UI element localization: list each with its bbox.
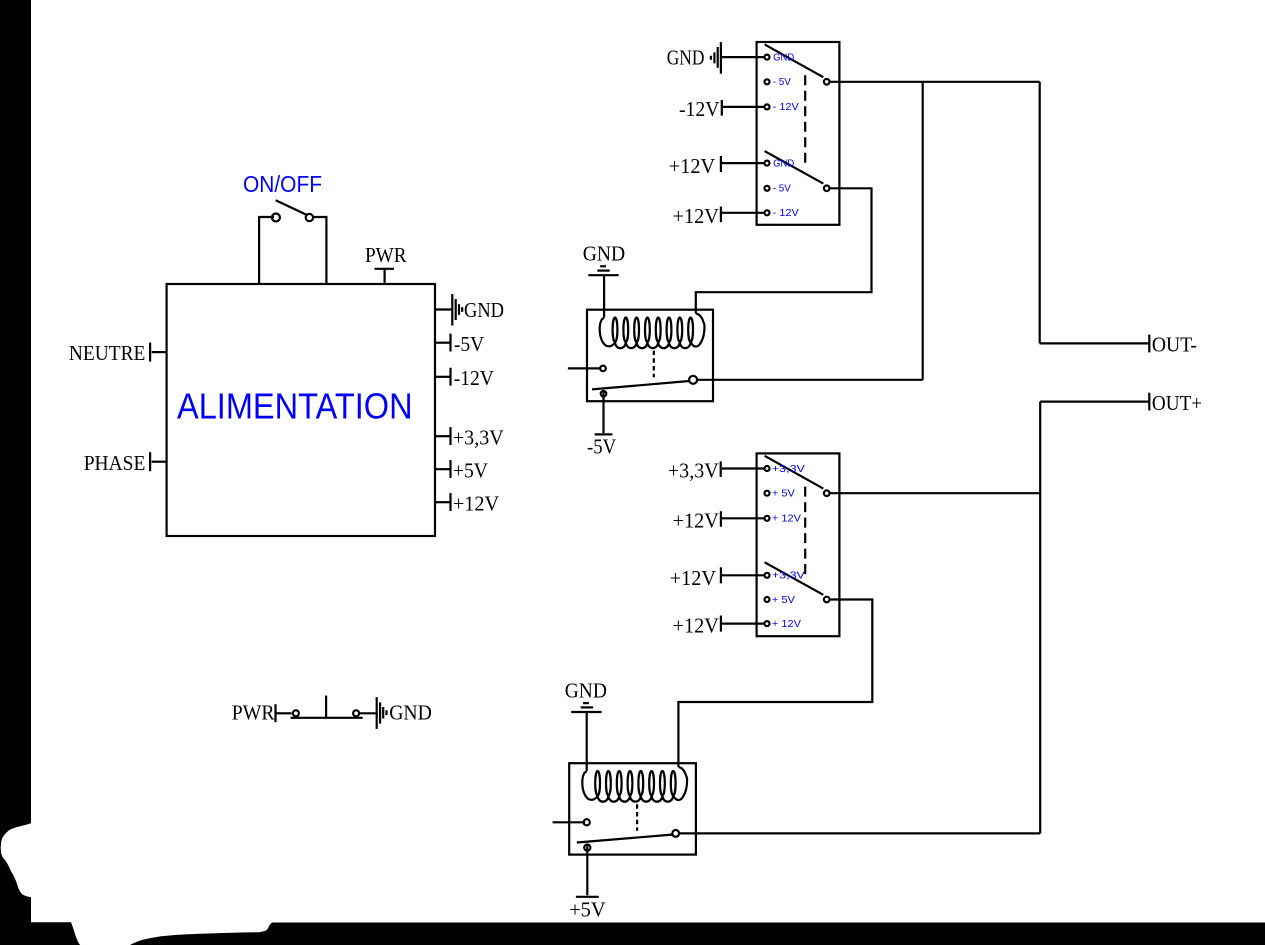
SW1 contact -12V pole2 xyxy=(765,210,770,215)
scan border left black bar xyxy=(0,0,31,945)
svg-text:+3,3V: +3,3V xyxy=(772,570,805,582)
scan border bottom black bar xyxy=(30,922,1265,945)
svg-text:+12V: +12V xyxy=(673,614,719,638)
wire SW1 pole1 output to OUT- corner xyxy=(830,81,1039,83)
ground symbol (horizontal bars) xyxy=(600,265,606,267)
SW2 contact +12V pole1 xyxy=(765,516,770,521)
svg-text:+3,3V: +3,3V xyxy=(453,426,504,450)
SW1 contact -5V pole2 xyxy=(765,186,770,191)
wire relay K1 NO to -5V tap xyxy=(602,391,604,434)
SW2 lever pole 1 xyxy=(765,456,824,489)
svg-text:-12V: -12V xyxy=(454,366,494,390)
svg-text:- 12V: - 12V xyxy=(773,207,799,219)
SW2 contact +3,3V pole1 xyxy=(765,466,770,471)
svg-text:PWR: PWR xyxy=(232,700,275,724)
svg-text:+12V: +12V xyxy=(669,154,715,178)
relay K1 mechanical link dashed xyxy=(653,351,655,378)
switch S1 lever xyxy=(276,200,308,215)
ground symbol xyxy=(376,697,378,729)
relay K2 box xyxy=(569,763,696,854)
SW2 contact +3,3V pole2 xyxy=(765,573,770,578)
svg-text:+ 5V: + 5V xyxy=(772,488,795,500)
svg-text:PWR: PWR xyxy=(365,243,407,267)
relay K1 pin NC stub xyxy=(568,367,602,369)
relay K2 coil xyxy=(582,771,598,800)
svg-text:ALIMENTATION: ALIMENTATION xyxy=(177,386,413,427)
SW2 contact +12V pole2 xyxy=(765,621,770,626)
SW1 common contact pole2 xyxy=(824,186,830,192)
svg-text:GND: GND xyxy=(565,679,607,703)
relay K1 contact NC xyxy=(600,366,606,372)
svg-text:+ 12V: + 12V xyxy=(772,618,801,630)
svg-text:- 5V: - 5V xyxy=(773,76,791,88)
switch S1 contact circle left xyxy=(272,214,280,222)
wire SW2 pole1 output joining OUT+ vertical xyxy=(830,492,1040,494)
svg-text:- 12V: - 12V xyxy=(773,101,799,113)
power supply box U1 ALIMENTATION xyxy=(167,284,435,536)
SW1 contact GND pole1 xyxy=(765,55,770,60)
svg-text:GND: GND xyxy=(773,51,794,63)
svg-text:+3,3V: +3,3V xyxy=(668,458,719,482)
SW2 common contact pole1 xyxy=(824,490,830,496)
svg-text:ON/OFF: ON/OFF xyxy=(243,171,322,197)
wire GND to coil xyxy=(586,713,588,771)
svg-text:+ 5V: + 5V xyxy=(772,594,795,606)
wire relay K2 NO to +5V tap xyxy=(586,844,588,895)
svg-text:-5V: -5V xyxy=(587,435,616,459)
pin tick OUT+ xyxy=(1148,393,1150,411)
wire OUT+ vertical xyxy=(1039,402,1041,834)
pin -5V xyxy=(435,342,450,344)
relay K1 lever xyxy=(592,381,689,389)
svg-text:+ 12V: + 12V xyxy=(772,513,801,525)
selector SW2 box xyxy=(757,453,840,636)
wire switch left leg xyxy=(259,217,274,284)
svg-text:- 5V: - 5V xyxy=(773,183,791,195)
power tap +5V bar xyxy=(576,896,599,898)
pin +5V xyxy=(435,468,450,470)
pushbutton S2 contact left xyxy=(293,710,299,716)
svg-text:+3,3V: +3,3V xyxy=(772,463,805,475)
SW1 contact -12V pole1 xyxy=(765,104,770,109)
relay K1 common contact xyxy=(689,376,697,384)
relay K1 box xyxy=(587,310,713,402)
svg-text:GND: GND xyxy=(389,700,432,724)
pushbutton S2 stem xyxy=(325,696,327,718)
svg-text:OUT-: OUT- xyxy=(1152,332,1197,356)
wire OUT+ horizontal xyxy=(1040,401,1148,403)
pin +3,3V xyxy=(435,435,450,437)
SW1 contact -5V pole1 xyxy=(765,79,770,84)
selector SW1 box xyxy=(757,42,840,225)
SW2 lever pole 2 xyxy=(765,562,824,595)
wire switch right leg xyxy=(314,217,327,284)
wire junction down to relay K1 common xyxy=(922,82,924,380)
pin PWR top xyxy=(375,268,395,270)
svg-text:OUT+: OUT+ xyxy=(1152,391,1202,415)
pin -12V xyxy=(435,376,450,378)
wire SW1 pole2 output to relay K1 coil xyxy=(696,188,872,313)
SW1 lever pole 1 xyxy=(765,44,824,77)
relay K2 contact NO xyxy=(584,845,590,851)
pin tick OUT- xyxy=(1148,335,1150,353)
wire OUT- horizontal xyxy=(1040,342,1149,344)
pin tick PWR xyxy=(274,704,276,722)
svg-text:GND: GND xyxy=(667,45,705,69)
SW2 contact +5V pole1 xyxy=(765,491,770,496)
relay K2 lever xyxy=(577,835,672,843)
svg-text:+12V: +12V xyxy=(453,492,499,516)
relay K2 common contact xyxy=(672,830,679,837)
relay K2 mechanical link dashed xyxy=(636,804,638,830)
svg-text:+12V: +12V xyxy=(673,204,719,228)
SW2 common contact pole2 xyxy=(824,597,830,603)
wire OUT- vertical xyxy=(1039,82,1041,344)
SW1 lever pole 2 xyxy=(765,151,824,184)
SW1 mechanical link (dashed) xyxy=(804,75,806,166)
SW2 mechanical link (dashed) xyxy=(804,487,806,578)
pushbutton S2 bridge xyxy=(291,717,363,719)
svg-text:GND: GND xyxy=(773,157,794,169)
relay K2 contact NC xyxy=(584,819,590,825)
pin +12V xyxy=(435,501,450,503)
wire GND to coil xyxy=(603,276,605,317)
switch S1 contact circle right xyxy=(306,214,313,221)
wire xyxy=(276,712,291,714)
svg-text:-5V: -5V xyxy=(454,332,484,356)
wire SW2 pole2 output to relay K2 coil xyxy=(678,600,872,768)
relay K1 coil xyxy=(600,318,616,347)
wire xyxy=(359,712,376,714)
SW1 common contact pole1 xyxy=(824,79,830,85)
wire relay K1 common output xyxy=(697,379,923,381)
SW2 contact +5V pole2 xyxy=(765,597,770,602)
svg-text:GND: GND xyxy=(464,298,504,322)
power tap -5V bar xyxy=(595,433,613,435)
svg-text:-12V: -12V xyxy=(679,97,720,121)
svg-text:NEUTRE: NEUTRE xyxy=(69,341,145,365)
pin GND right of box xyxy=(435,308,451,310)
svg-text:+5V: +5V xyxy=(453,459,488,483)
wire relay K2 common output xyxy=(680,832,1040,834)
relay K2 pin NC stub xyxy=(553,821,586,823)
pushbutton S2 contact right xyxy=(353,710,359,716)
svg-text:GND: GND xyxy=(583,242,625,266)
ground symbol (vertical bars) xyxy=(451,294,453,326)
SW1 contact GND pole2 xyxy=(765,161,770,166)
ground symbol (horizontal bars) xyxy=(583,702,589,704)
svg-text:PHASE: PHASE xyxy=(84,451,146,475)
relay K1 contact NO xyxy=(601,391,607,397)
svg-text:+12V: +12V xyxy=(670,566,716,590)
svg-text:+5V: +5V xyxy=(569,897,605,921)
svg-text:+12V: +12V xyxy=(673,508,719,532)
